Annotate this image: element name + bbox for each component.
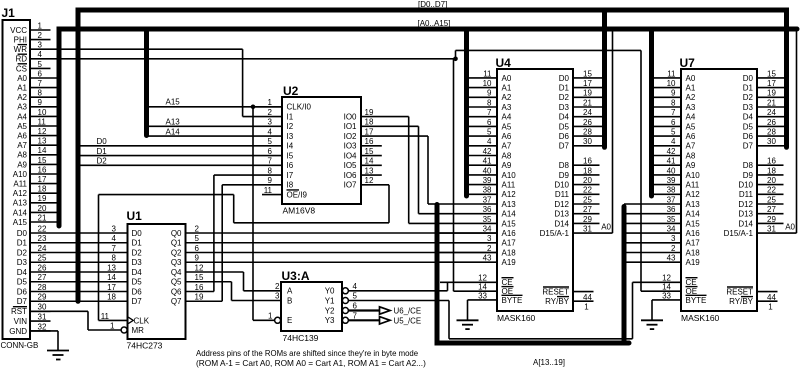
svg-text:A13: A13 [13,199,28,208]
U7 pin name labels [686,74,754,306]
svg-text:RESET: RESET [726,288,753,297]
wire /WR from J1 pin 3 to U2 I1 [51,49,283,116]
svg-text:25: 25 [767,195,776,204]
U7 right pin numbers [767,69,776,233]
svg-text:24: 24 [767,108,776,117]
svg-text:U7: U7 [680,56,696,70]
U1 MR inversion bubble [121,327,127,333]
bus [A0..A15] main run [59,29,797,226]
U3 Y2 output bubble [342,308,348,314]
svg-text:A0: A0 [502,74,512,83]
svg-text:I1: I1 [287,112,294,121]
svg-text:7: 7 [268,157,273,166]
ground symbol at J1 [47,351,69,360]
U4 D8-D14 stubs (unconnected) [573,165,600,223]
svg-text:[D0..D7]: [D0..D7] [418,0,447,9]
svg-text:A2: A2 [686,93,696,102]
svg-text:4: 4 [487,137,492,146]
svg-text:A14: A14 [166,127,181,136]
svg-text:MR: MR [132,326,145,335]
junction A15 at U2 pin 1 [251,105,256,110]
svg-text:11: 11 [667,69,676,78]
svg-text:GND: GND [9,327,27,336]
svg-text:4: 4 [268,127,273,136]
svg-text:17: 17 [767,79,776,88]
svg-text:18: 18 [583,166,592,175]
wire U1 Q7 to U2 I8 [186,185,283,301]
svg-text:I6: I6 [287,161,294,170]
svg-text:D13: D13 [738,210,753,219]
svg-text:19: 19 [767,89,776,98]
U7 D0-D7 stubs to data bus [757,78,787,146]
svg-text:42: 42 [483,147,492,156]
svg-text:A[13..19]: A[13..19] [533,358,565,367]
U7 D15/A-1 wire to cart A0 (address bus) [757,31,797,233]
svg-text:35: 35 [483,215,492,224]
svg-text:30: 30 [583,137,592,146]
ROM U4 MASK160 [496,56,574,323]
svg-text:D7: D7 [743,142,754,151]
svg-text:OE/I9: OE/I9 [287,190,308,199]
svg-text:Y1: Y1 [325,296,335,305]
svg-text:5: 5 [268,137,273,146]
svg-text:A4: A4 [502,113,512,122]
svg-text:IO4: IO4 [344,151,357,160]
svg-text:19: 19 [38,194,47,203]
U3 Y0 output bubble [342,288,348,294]
U1 pin name labels [132,229,183,335]
svg-text:A5: A5 [502,122,512,131]
svg-text:3: 3 [487,234,492,243]
svg-text:U3:A: U3:A [282,269,310,283]
svg-text:CE: CE [502,278,513,287]
svg-text:A6: A6 [502,132,512,141]
svg-text:A5: A5 [17,122,27,131]
svg-text:12: 12 [478,274,487,283]
svg-text:A7: A7 [502,142,512,151]
svg-text:A12: A12 [502,190,517,199]
bus [D0..D7] drop to U4 data pins [602,10,607,147]
svg-text:A17: A17 [502,239,517,248]
svg-text:5: 5 [671,128,676,137]
svg-text:16: 16 [583,157,592,166]
wire U2 IO0 to ROM A15 row [361,117,437,224]
PLD U2 AM16V8 [282,84,361,216]
svg-text:U4: U4 [496,56,512,70]
svg-text:28: 28 [38,283,47,292]
latch U1 74HC273 [127,209,186,351]
svg-text:A3: A3 [686,103,696,112]
svg-text:A11: A11 [502,181,516,190]
ground symbol at U7 /BYTE [641,320,663,329]
svg-text:21: 21 [38,213,47,222]
J1 pin stubs (pins 1-32) [30,30,76,331]
svg-text:A17: A17 [686,239,701,248]
svg-text:37: 37 [667,195,676,204]
wire U2 IO1 to ROM A14 row [361,126,437,213]
svg-text:19: 19 [365,108,374,117]
svg-text:21: 21 [583,98,592,107]
svg-text:D12: D12 [738,200,753,209]
svg-text:D1: D1 [17,239,28,248]
svg-text:24: 24 [583,108,592,117]
svg-text:16: 16 [195,283,204,292]
U4 RESET / RY-BY pin numbers [583,293,592,312]
svg-text:7: 7 [112,244,117,253]
svg-text:D4: D4 [17,268,28,277]
svg-text:A8: A8 [502,151,512,160]
bus A[13..19] left run [437,205,629,344]
svg-text:D6: D6 [559,132,570,141]
svg-text:IO7: IO7 [344,181,357,190]
svg-text:12: 12 [365,176,374,185]
net label A0 at U4 [601,223,611,232]
svg-text:17: 17 [107,283,116,292]
svg-text:41: 41 [667,157,676,166]
svg-text:CS: CS [16,64,27,73]
svg-text:BYTE: BYTE [686,296,707,305]
wire U3 Y1 to U7 /CE [348,282,681,339]
svg-text:CONN-GB: CONN-GB [1,341,39,350]
svg-text:A10: A10 [502,171,517,180]
svg-text:40: 40 [483,166,492,175]
svg-text:29: 29 [38,293,47,302]
svg-text:17: 17 [583,79,592,88]
svg-text:A1: A1 [17,84,27,93]
svg-text:D0: D0 [132,229,143,238]
svg-text:9: 9 [195,254,200,263]
wire U1 Q5 to U3 input B [186,282,282,301]
svg-text:42: 42 [667,147,676,156]
U4 D0-D7 stubs to data bus [573,78,605,146]
svg-text:A15: A15 [166,98,181,107]
svg-text:9: 9 [671,89,676,98]
svg-text:38: 38 [667,186,676,195]
svg-text:D4: D4 [743,113,754,122]
svg-text:18: 18 [767,166,776,175]
svg-text:20: 20 [38,204,47,213]
bus [A0..A15] drop to U4 address pins [464,29,469,196]
svg-text:A0: A0 [17,74,27,83]
svg-text:25: 25 [583,195,592,204]
svg-text:A14: A14 [686,210,701,219]
svg-text:2: 2 [195,224,200,233]
svg-text:D2: D2 [743,93,754,102]
svg-text:RY/BY: RY/BY [729,297,754,306]
U7 D8-D14 stubs (unconnected) [757,165,784,223]
svg-text:44: 44 [583,293,592,302]
note text line 1 [196,349,418,358]
svg-text:IO3: IO3 [344,142,357,151]
svg-text:A2: A2 [17,93,27,102]
U3 E input inversion bubble [275,317,281,323]
svg-text:D1: D1 [132,239,143,248]
svg-text:74HC139: 74HC139 [283,333,319,343]
svg-text:D5: D5 [132,278,143,287]
svg-text:14: 14 [662,283,671,292]
svg-text:4: 4 [38,50,43,59]
svg-text:5: 5 [195,234,200,243]
svg-text:A9: A9 [502,161,512,170]
U4 RESET stub (unconnected) [573,291,594,293]
ground symbol at U4 /BYTE [457,320,479,329]
U4 left pin numbers [478,69,492,300]
svg-text:7: 7 [38,79,43,88]
svg-text:D5: D5 [17,278,28,287]
svg-text:D11: D11 [555,190,570,199]
svg-text:D1: D1 [559,84,570,93]
svg-text:18: 18 [38,185,47,194]
wire D0 tap from data bus to U2 I4 [78,145,282,147]
svg-text:11: 11 [483,69,492,78]
svg-text:Q6: Q6 [171,287,182,296]
svg-text:6: 6 [671,118,676,127]
svg-text:RD: RD [15,55,27,64]
svg-text:31: 31 [38,313,47,322]
svg-text:35: 35 [667,215,676,224]
svg-text:CLK/I0: CLK/I0 [287,103,312,112]
svg-text:8: 8 [487,98,492,107]
svg-text:A15: A15 [13,218,28,227]
U4 RY/BY stub (unconnected) [573,300,594,302]
output port U6_/CE [380,307,391,314]
bus [D0..D7] main run [78,10,787,301]
svg-text:A16: A16 [686,229,701,238]
U3 pin numbers [268,282,357,321]
svg-text:Q3: Q3 [171,258,182,267]
svg-text:I2: I2 [287,122,294,131]
svg-text:D14: D14 [738,219,753,228]
svg-text:RST: RST [11,307,27,316]
svg-text:Y0: Y0 [325,287,335,296]
svg-text:D1: D1 [743,84,754,93]
svg-text:BYTE: BYTE [502,296,523,305]
svg-text:27: 27 [583,205,592,214]
svg-text:4: 4 [671,137,676,146]
svg-text:41: 41 [483,157,492,166]
svg-text:40: 40 [667,166,676,175]
svg-text:8: 8 [268,166,273,175]
svg-text:32: 32 [38,322,47,331]
U1 right pin numbers [195,224,204,301]
wire U2 IO2 to ROM A13 row [361,136,437,204]
svg-text:5: 5 [487,128,492,137]
svg-text:2: 2 [38,31,43,40]
svg-text:A14: A14 [502,210,517,219]
wire /RD from J1 pin 4 to U4 /OE [51,59,498,291]
U7 RESET stub (unconnected) [757,291,778,293]
svg-text:[A0..A15]: [A0..A15] [418,19,451,28]
U4 /BYTE tie to ground [468,300,498,320]
svg-text:A19: A19 [686,258,701,267]
svg-text:16: 16 [767,157,776,166]
svg-text:11: 11 [101,312,110,321]
wire U3 Y2 to port U6_/CE [348,309,379,311]
svg-text:A3: A3 [502,103,512,112]
svg-text:D0: D0 [743,74,754,83]
svg-text:CLK: CLK [134,316,150,325]
svg-text:A3: A3 [17,103,27,112]
svg-text:14: 14 [478,283,487,292]
svg-text:3: 3 [268,118,273,127]
svg-text:1: 1 [268,311,273,320]
svg-text:D8: D8 [559,161,570,170]
svg-text:A10: A10 [686,171,701,180]
svg-text:RESET: RESET [542,288,569,297]
svg-text:16: 16 [38,165,47,174]
svg-text:26: 26 [38,263,47,272]
svg-text:17: 17 [38,175,47,184]
svg-text:D11: D11 [739,190,754,199]
svg-text:1: 1 [110,321,115,330]
svg-text:36: 36 [667,205,676,214]
U3 Y1 output bubble [342,298,348,304]
svg-text:44: 44 [767,293,776,302]
U2 IO3-IO6 stubs (unconnected) [361,146,382,175]
svg-text:IO6: IO6 [344,171,357,180]
svg-text:26: 26 [583,118,592,127]
svg-text:6: 6 [38,69,43,78]
svg-text:A13: A13 [166,118,181,127]
U3 Y3 output bubble [342,317,348,323]
svg-text:19: 19 [583,89,592,98]
svg-text:9: 9 [268,176,273,185]
svg-text:13: 13 [365,166,374,175]
U4 A0-A12 stubs from address bus [467,78,498,194]
svg-text:34: 34 [483,225,492,234]
bus A[13..19] right vertical to U7 [622,207,627,342]
net label A15 [166,98,181,107]
svg-text:Q2: Q2 [171,248,182,257]
net label A14 [166,127,181,136]
svg-text:3: 3 [112,224,117,233]
U7 left pin numbers [662,69,676,300]
svg-text:IO1: IO1 [344,122,357,131]
bus [A0..A15] drop to U7 address pins [649,29,654,196]
svg-text:21: 21 [767,98,776,107]
svg-text:A9: A9 [17,160,27,169]
svg-text:J1: J1 [2,6,16,20]
svg-text:D7: D7 [132,297,143,306]
U1 left pin numbers [101,224,117,330]
svg-text:27: 27 [38,273,47,282]
svg-text:28: 28 [767,128,776,137]
svg-text:D2: D2 [97,157,108,166]
svg-text:1: 1 [584,302,589,311]
svg-text:D5: D5 [559,122,570,131]
svg-text:10: 10 [483,79,492,88]
svg-text:18: 18 [365,118,374,127]
U4 right pin numbers [583,69,592,233]
svg-text:14: 14 [365,157,374,166]
svg-text:A13: A13 [502,200,517,209]
svg-text:6: 6 [353,302,358,311]
svg-text:A: A [287,287,293,296]
svg-text:12: 12 [662,274,671,283]
U7 RESET / RY-BY pin numbers [767,293,776,312]
svg-text:U2: U2 [283,84,299,98]
svg-text:15: 15 [365,147,374,156]
svg-text:U5_/CE: U5_/CE [394,316,422,325]
svg-text:22: 22 [767,186,776,195]
note text line 2 [196,358,426,368]
svg-text:D9: D9 [559,171,570,180]
svg-text:D10: D10 [738,181,753,190]
svg-text:25: 25 [38,254,47,263]
svg-text:Q7: Q7 [171,297,182,306]
svg-text:B: B [287,296,292,305]
svg-text:A11: A11 [13,180,27,189]
svg-text:38: 38 [483,186,492,195]
svg-text:D3: D3 [17,258,28,267]
svg-text:IO2: IO2 [344,132,357,141]
svg-text:6: 6 [195,244,200,253]
svg-text:20: 20 [767,176,776,185]
svg-text:Q4: Q4 [171,268,182,277]
svg-text:A11: A11 [686,181,700,190]
svg-text:VIN: VIN [14,317,28,326]
wire /RD branch to U7 /OE [456,50,682,291]
svg-text:13: 13 [107,263,116,272]
svg-text:2: 2 [275,282,280,291]
U2 pin 1 stub from A15 junction [253,106,282,108]
U1 CLK input triangle [128,317,133,323]
U7 A0-A12 stubs from address bus [652,78,682,194]
net label D2 [97,157,108,166]
svg-text:I4: I4 [287,142,294,151]
svg-text:30: 30 [767,137,776,146]
svg-text:2: 2 [487,244,492,253]
svg-text:MASK160: MASK160 [681,313,720,323]
svg-text:A13: A13 [686,200,701,209]
svg-text:A8: A8 [686,151,696,160]
svg-text:33: 33 [478,291,487,300]
svg-text:16: 16 [365,137,374,146]
svg-text:E: E [287,316,292,325]
U4 pin name labels [502,74,570,306]
svg-text:10: 10 [667,79,676,88]
svg-text:A8: A8 [17,151,27,160]
output port U5_/CE [380,317,391,324]
svg-text:AM16V8: AM16V8 [283,206,316,216]
svg-text:D0: D0 [97,137,108,146]
svg-text:D2: D2 [132,248,143,257]
svg-text:43: 43 [667,254,676,263]
bus [A0..A15] label [418,19,451,28]
svg-text:Address pins of the ROMs are s: Address pins of the ROMs are shifted sin… [196,349,418,358]
svg-text:D6: D6 [132,287,143,296]
svg-text:A7: A7 [17,141,27,150]
svg-text:1: 1 [768,302,773,311]
svg-text:2: 2 [268,108,273,117]
svg-text:31: 31 [583,225,592,234]
svg-text:9: 9 [487,89,492,98]
svg-text:D4: D4 [132,268,143,277]
svg-text:D15/A-1: D15/A-1 [540,229,570,238]
svg-text:19: 19 [195,293,204,302]
J1 pin name labels [9,26,27,336]
svg-text:PHI: PHI [14,36,27,45]
svg-text:I8: I8 [287,181,294,190]
junction /RD branch [453,57,458,62]
ROM U7 MASK160 [680,56,758,323]
svg-text:Q5: Q5 [171,278,182,287]
svg-text:A16: A16 [502,229,517,238]
svg-text:23: 23 [38,234,47,243]
svg-text:A12: A12 [13,189,28,198]
svg-text:36: 36 [483,205,492,214]
svg-text:7: 7 [671,108,676,117]
